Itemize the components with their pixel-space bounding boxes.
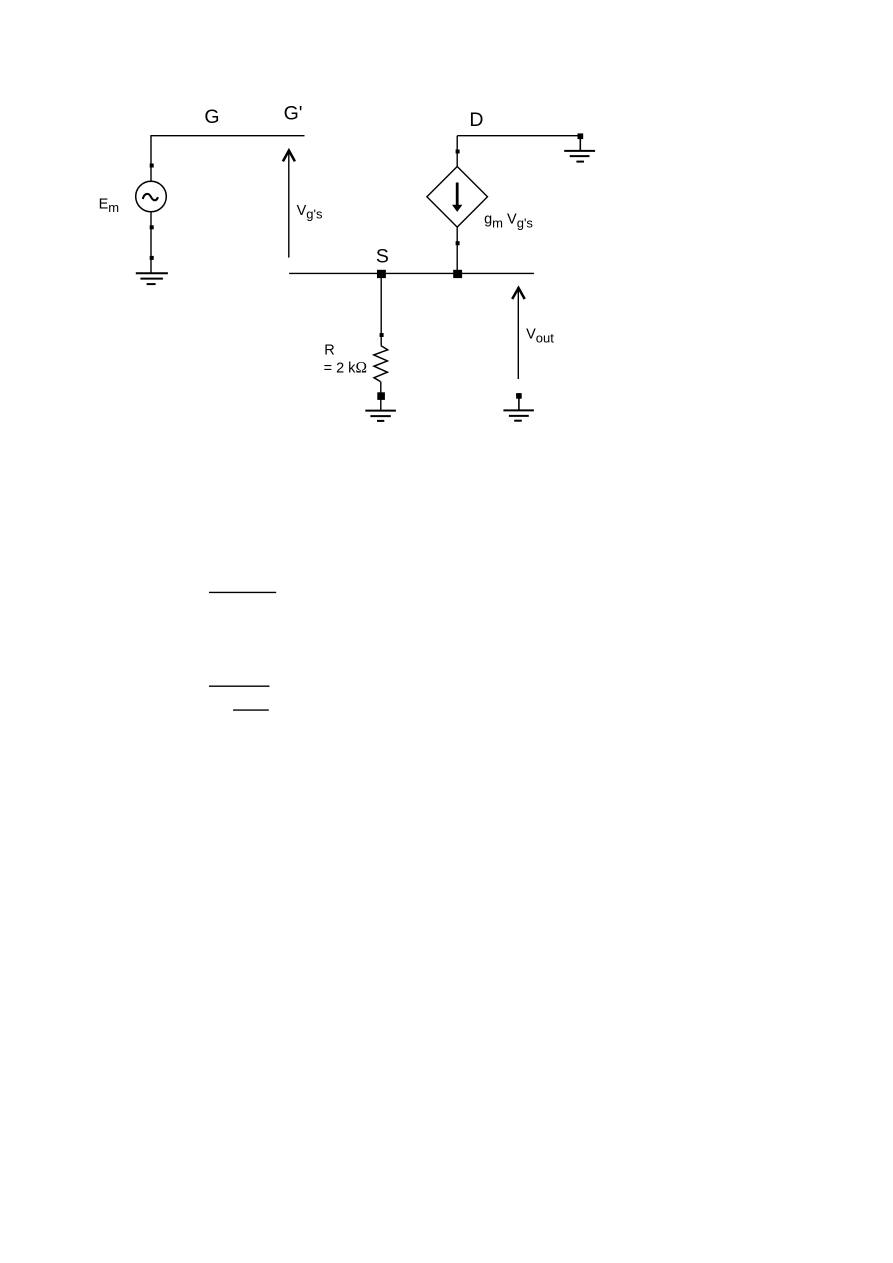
wire dependent source bottom lead bbox=[456, 227, 458, 273]
fraction bar 3 bbox=[233, 709, 269, 711]
wire stub to ground near D bbox=[579, 138, 581, 151]
ground (below Vout arrow) bbox=[503, 410, 534, 420]
terminal square below dependent source bbox=[456, 241, 460, 245]
terminal square on Em bottom lead bbox=[150, 225, 154, 229]
wire resistor bottom lead bbox=[380, 382, 382, 411]
terminal square on Em top lead bbox=[150, 164, 154, 168]
svg-text:G: G bbox=[204, 106, 219, 128]
wire Em bottom lead bbox=[150, 212, 152, 273]
wire from node D down to dependent source bbox=[456, 136, 458, 167]
terminal square at ground tie of D bbox=[578, 133, 584, 139]
svg-text:Em: Em bbox=[99, 197, 120, 216]
wire stub to ground below Vout bbox=[518, 397, 520, 410]
terminal square above resistor R bbox=[380, 333, 384, 337]
resistor R bbox=[374, 346, 388, 382]
terminal square above dependent source bbox=[456, 150, 460, 154]
ground (right of D) bbox=[564, 151, 595, 162]
voltage source U Em (AC source circle) bbox=[136, 181, 167, 212]
terminal square above ground of Vout reference bbox=[516, 393, 522, 399]
terminal square below resistor R bbox=[377, 392, 385, 400]
junction at dependent source and wire S bbox=[453, 270, 462, 278]
wire from S down to resistor bbox=[380, 273, 382, 345]
wire G (top-left horizontal) bbox=[150, 135, 304, 137]
svg-text:S: S bbox=[376, 246, 389, 268]
wire D (top-right horizontal) bbox=[457, 135, 580, 137]
svg-text:G': G' bbox=[284, 103, 303, 125]
svg-text:R: R bbox=[324, 343, 334, 359]
junction S (square) bbox=[377, 270, 386, 278]
fraction bar 2 bbox=[209, 685, 270, 687]
terminal square above ground of Em bbox=[150, 256, 154, 260]
dependent current source G1 gm*Vg's (diamond) bbox=[427, 167, 488, 228]
ground (below Em) bbox=[136, 273, 168, 284]
svg-text:D: D bbox=[469, 109, 483, 131]
svg-text:Vout: Vout bbox=[526, 327, 554, 346]
wire S (bottom horizontal) bbox=[289, 272, 534, 274]
svg-text:= 2 kΩ: = 2 kΩ bbox=[324, 360, 367, 377]
ground (below resistor R) bbox=[365, 411, 396, 421]
wire from node G down to source Em bbox=[150, 136, 152, 182]
arrow Vout bbox=[512, 288, 525, 379]
svg-text:Vg's: Vg's bbox=[297, 203, 323, 222]
svg-text:gm Vg's: gm Vg's bbox=[484, 212, 533, 231]
arrow Vg's bbox=[283, 151, 295, 258]
fraction bar 1 bbox=[209, 591, 276, 593]
